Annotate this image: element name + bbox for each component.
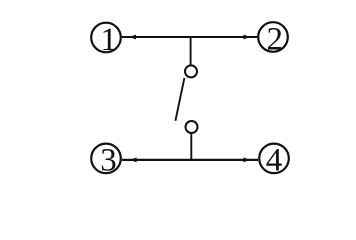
- pin 1 terminal circle: [91, 23, 121, 53]
- arrowhead pointing left into pin 1: [129, 35, 136, 40]
- arrowhead pointing right into pin 2: [243, 35, 250, 40]
- svg-text:3: 3: [100, 143, 117, 179]
- wire stub from top rail down to upper contact: [190, 37, 192, 65]
- switch upper fixed contact: [185, 65, 197, 77]
- pin 3 terminal circle: [91, 144, 121, 174]
- switch actuator lever (normally open): [175, 78, 184, 121]
- svg-text:4: 4: [266, 143, 283, 179]
- arrowhead pointing left into pin 3: [129, 158, 136, 163]
- arrowhead pointing right into pin 4: [243, 158, 250, 163]
- wire pin3 to pin4 (bottom rail): [122, 159, 258, 161]
- svg-text:2: 2: [267, 22, 284, 58]
- pin 2 terminal circle: [258, 22, 288, 52]
- wire stub from lower contact down to bottom rail: [190, 133, 192, 160]
- pin 4 terminal circle: [259, 144, 289, 174]
- switch lower fixed contact: [186, 121, 198, 133]
- wire pin1 to pin2 (top rail): [122, 36, 257, 38]
- svg-text:1: 1: [101, 22, 118, 58]
